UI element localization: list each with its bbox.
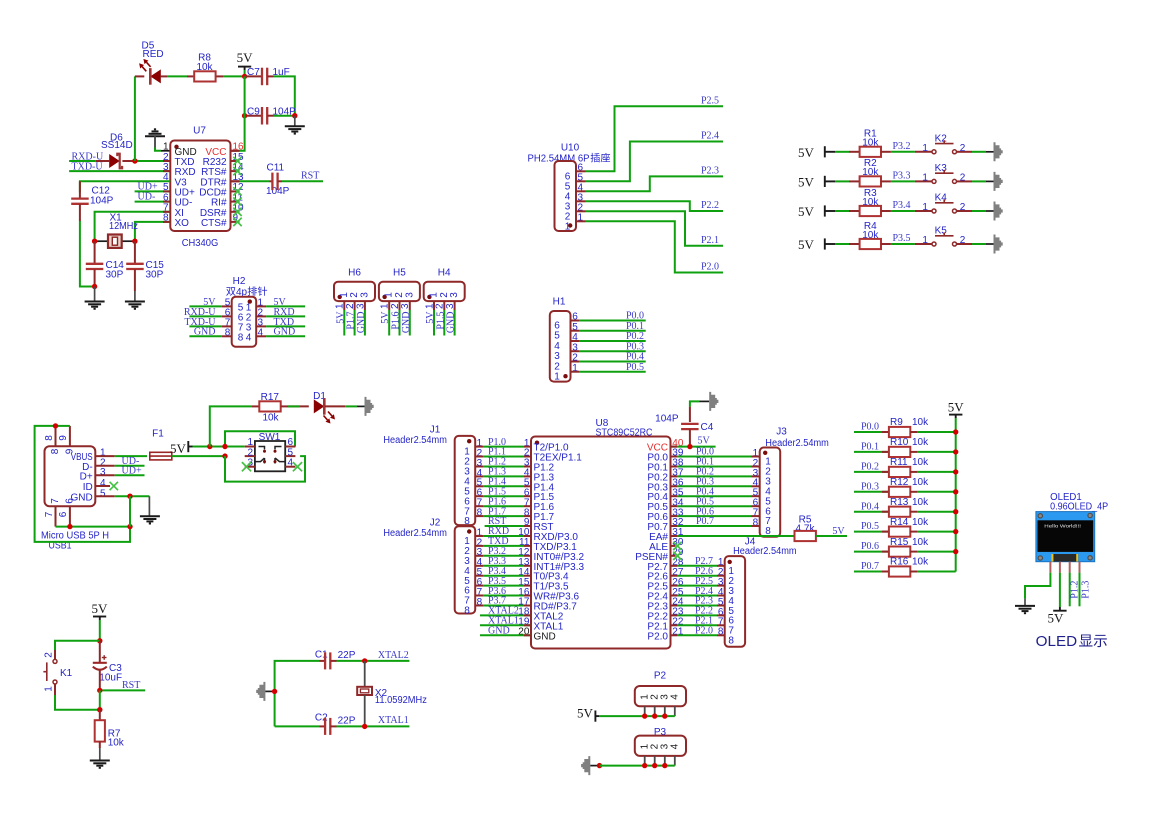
- svg-text:P0.5: P0.5: [861, 521, 879, 532]
- capacitor C3 10uF polarized: [93, 641, 122, 691]
- button K4: [915, 193, 972, 213]
- junction node 5V reset: [97, 638, 102, 643]
- svg-text:4: 4: [670, 743, 681, 749]
- wire R3 to K4: [891, 210, 915, 212]
- button K5: [915, 226, 972, 246]
- svg-text:J1: J1: [430, 425, 441, 436]
- capacitor C11 104P: [266, 163, 290, 198]
- svg-text:P0.4: P0.4: [861, 501, 879, 512]
- wire net P0.4 to R13: [854, 511, 889, 513]
- svg-text:2: 2: [960, 202, 966, 213]
- wire 5V pullup rail: [955, 418, 957, 572]
- svg-text:P0.1: P0.1: [861, 442, 879, 453]
- resistor R4 10k: [849, 221, 891, 249]
- J1 net labels P1.x: [488, 437, 506, 518]
- svg-text:1: 1: [44, 686, 55, 692]
- svg-text:Hello World!!!: Hello World!!!: [1044, 523, 1081, 529]
- junction node shell bottom right: [127, 524, 132, 529]
- wire net XTAL2: [365, 650, 410, 661]
- junction node C9 left: [242, 113, 247, 118]
- wire net P0.1 to R10: [854, 451, 889, 453]
- wire 5V to R3: [835, 210, 849, 212]
- svg-text:0.96OLED_4P: 0.96OLED_4P: [1050, 501, 1108, 513]
- wire gnd rail to C2: [275, 725, 320, 727]
- ground (D1, arrow): [365, 397, 374, 416]
- connector P2: [635, 671, 686, 707]
- junction node C9 right: [292, 113, 297, 118]
- svg-text:P1.3: P1.3: [1081, 581, 1092, 599]
- svg-text:5V: 5V: [798, 175, 815, 190]
- svg-text:1: 1: [565, 221, 571, 232]
- ground (K5 row, arrow): [994, 235, 1003, 254]
- net label P2.0: [701, 262, 719, 273]
- resistor R5 4.7k: [795, 515, 816, 542]
- svg-text:10k: 10k: [912, 497, 929, 508]
- H2 left net labels: [184, 297, 216, 338]
- resistor R12 10k: [889, 477, 929, 497]
- junction node VCC C4: [687, 444, 692, 449]
- svg-text:30P: 30P: [106, 270, 124, 281]
- power 5V (R1 row): [798, 145, 835, 160]
- resistor R9 10k: [889, 417, 929, 437]
- svg-text:P2.0: P2.0: [701, 262, 719, 273]
- power 5V (OLED, inverted): [1048, 607, 1067, 626]
- LED D5: [135, 41, 167, 85]
- svg-text:P2.3: P2.3: [701, 166, 719, 177]
- svg-text:F1: F1: [152, 428, 164, 439]
- wire net TXD-U: [69, 170, 170, 172]
- svg-text:Header2.54mm: Header2.54mm: [383, 435, 447, 446]
- wire net XTAL1: [365, 715, 410, 726]
- wire OLED pin4 P1.3: [1080, 573, 1092, 607]
- svg-text:RST: RST: [122, 680, 140, 691]
- svg-text:TXD-U: TXD-U: [72, 161, 104, 172]
- junction node C14 bottom: [92, 284, 97, 289]
- svg-text:3: 3: [404, 292, 415, 298]
- U8 left pin names: [534, 443, 585, 643]
- svg-text:10k: 10k: [912, 537, 929, 548]
- junction node shell top: [53, 423, 58, 428]
- resistor R13 10k: [889, 497, 929, 517]
- wire 5V to K1: [55, 641, 100, 650]
- wire LED branch vertical: [134, 76, 136, 161]
- caption OLED display: [1036, 634, 1107, 650]
- J4 pin wires to U8: [671, 566, 725, 636]
- svg-text:H5: H5: [393, 268, 406, 279]
- wire SW1 pin5 loop: [225, 456, 305, 482]
- wire C1 right to XTAL2: [337, 660, 365, 662]
- LED D1: [313, 391, 345, 423]
- net label P2.4: [701, 131, 719, 142]
- wire C1 left to gnd rail: [275, 661, 320, 727]
- svg-text:H2: H2: [233, 276, 246, 287]
- wire 5V node to SW1 pins: [210, 431, 295, 446]
- svg-text:5: 5: [100, 488, 106, 499]
- H4 net labels: [425, 311, 457, 333]
- junction node rail R13: [953, 509, 958, 514]
- svg-text:10uF: 10uF: [99, 673, 122, 684]
- svg-text:5V: 5V: [237, 50, 254, 65]
- wire K1 to RST node: [55, 695, 100, 710]
- svg-text:GND: GND: [194, 327, 216, 338]
- svg-text:H1: H1: [553, 297, 566, 308]
- svg-text:XTAL1: XTAL1: [378, 715, 409, 726]
- no-connect X SW1 pin4: [293, 462, 302, 471]
- ground (K2 row, arrow): [994, 142, 1003, 161]
- H2 right net labels: [274, 297, 296, 338]
- svg-text:P3.5: P3.5: [893, 233, 911, 244]
- svg-text:P3.2: P3.2: [893, 141, 911, 152]
- ground (crystal, arrow left): [256, 682, 274, 701]
- wire 5V to P2 pins: [599, 715, 675, 717]
- wire U7 pin8 XO to X1: [135, 222, 170, 241]
- U7 left pin numbers: [163, 142, 169, 224]
- net label P0.4 (pullup): [861, 501, 879, 512]
- svg-text:6: 6: [64, 498, 75, 504]
- no-connect X SW1 pin3: [242, 462, 251, 471]
- wire 5V to R2: [835, 180, 849, 182]
- svg-text:3: 3: [355, 303, 366, 309]
- svg-text:22P: 22P: [338, 650, 356, 661]
- connector H6: [334, 268, 375, 302]
- svg-text:J2: J2: [430, 518, 441, 529]
- svg-text:U7: U7: [193, 126, 206, 137]
- junction node SW1 pin2 loop: [222, 453, 227, 458]
- resistor R10 10k: [889, 437, 929, 457]
- U8 right pin numbers: [672, 438, 684, 638]
- wire U8 VCC pin40 to 5V: [671, 436, 716, 447]
- wire C2 right to XTAL1: [337, 725, 365, 727]
- svg-text:5V: 5V: [798, 145, 815, 160]
- wire net RST (C11 right): [282, 171, 323, 182]
- svg-text:8: 8: [238, 333, 244, 344]
- ground (below R7): [90, 748, 110, 768]
- net label RXD-U: [72, 151, 104, 162]
- connector USB1 Micro USB 5P H: [41, 446, 109, 551]
- wire net P2.1 (U10 pin2): [586, 211, 724, 246]
- svg-text:ID: ID: [83, 482, 93, 493]
- ground (below C14): [85, 287, 105, 309]
- U7 right pin numbers: [233, 142, 245, 224]
- svg-text:2: 2: [960, 143, 966, 154]
- J3 pin wires to U8: [671, 457, 760, 527]
- junction node R7 top: [97, 707, 102, 712]
- H2 right pin stubs and wires: [256, 306, 305, 336]
- capacitor C12 104P: [71, 181, 113, 221]
- ground (C4, arrow): [709, 392, 718, 411]
- svg-text:5V: 5V: [577, 706, 594, 721]
- wire net P2.3 (U10 pin4): [586, 176, 724, 191]
- resistor R17 10k: [252, 392, 288, 424]
- wire R14 to rail: [917, 531, 956, 533]
- connector J4 Header2.54mm: [718, 536, 797, 647]
- USB1 shell pins 7 6 bottom stubs: [44, 506, 70, 526]
- U8 left pin numbers: [518, 438, 530, 638]
- H5 pin stubs and wires: [380, 301, 412, 335]
- wire 5V up to R17: [210, 406, 252, 446]
- svg-text:H6: H6: [348, 268, 361, 279]
- svg-text:RST: RST: [301, 171, 319, 182]
- svg-text:GND: GND: [488, 626, 510, 637]
- svg-text:4: 4: [100, 478, 106, 489]
- junction nodes P3: [642, 763, 668, 768]
- svg-text:10k: 10k: [108, 738, 125, 749]
- crystal X1 12MHz: [95, 213, 138, 248]
- ground (USB): [140, 496, 160, 523]
- net label P0.2 (pullup): [861, 462, 879, 473]
- junction node rail R12: [953, 489, 958, 494]
- power 5V (P2): [577, 706, 599, 722]
- wire USB shell ground loop: [35, 426, 130, 542]
- wire U7 pin7 XI to X1: [95, 212, 171, 241]
- junction node crystal gnd: [272, 689, 277, 694]
- connector J3 Header2.54mm: [753, 427, 829, 538]
- svg-text:P0.7: P0.7: [696, 516, 714, 527]
- resistor R7 10k: [95, 710, 125, 749]
- ground (K3 row, arrow): [994, 172, 1003, 191]
- capacitor C14 30P: [86, 241, 124, 286]
- net label P3.4: [893, 200, 911, 211]
- capacitor C9 104P: [245, 107, 297, 125]
- svg-text:J3: J3: [776, 427, 787, 438]
- wire R12 to rail: [917, 491, 956, 493]
- svg-text:1: 1: [922, 235, 928, 246]
- J4 net labels P2.x: [695, 556, 713, 637]
- capacitor C1 22P: [315, 650, 356, 670]
- junction node P3 gnd: [597, 763, 602, 768]
- svg-text:7: 7: [50, 498, 61, 504]
- power 5V (pullup rail): [948, 400, 965, 419]
- svg-text:C11: C11: [267, 163, 285, 174]
- svg-text:4: 4: [670, 694, 681, 700]
- svg-text:5V: 5V: [170, 441, 187, 456]
- junction node 5V switch: [207, 444, 212, 449]
- wire R17 to D1: [288, 405, 309, 407]
- net label P0.0 (pullup): [861, 422, 879, 433]
- svg-text:10k: 10k: [912, 517, 929, 528]
- wire net P2.5 (U10 pin6): [586, 106, 724, 171]
- wire U8 EA# pin31 to R5: [671, 535, 795, 537]
- svg-text:3: 3: [445, 303, 456, 309]
- no-connect X U8 ALE pin30: [671, 542, 682, 550]
- svg-text:10k: 10k: [912, 557, 929, 568]
- wire net GND (U8 pin20): [480, 626, 531, 637]
- P3 pin stubs: [645, 756, 675, 766]
- U7 right pin stubs: [231, 151, 240, 222]
- net label P0.6 (pullup): [861, 541, 879, 552]
- wire 5V rail to U7 VCC pin16: [231, 76, 245, 150]
- wire C7 to gnd corner: [274, 76, 295, 115]
- wire OLED pin2 5V: [1059, 573, 1061, 607]
- svg-text:3: 3: [449, 292, 460, 298]
- wire U7 pin4 V3 to C12: [80, 181, 170, 192]
- junction node rail R14: [953, 529, 958, 534]
- OLED pin stubs: [1050, 562, 1079, 573]
- button K2: [915, 134, 972, 154]
- svg-text:1: 1: [922, 202, 928, 213]
- svg-text:1: 1: [554, 372, 560, 383]
- wire net P0.7 to R16: [854, 571, 889, 573]
- wire net P0.0 to R9: [854, 431, 889, 433]
- svg-text:P0.0: P0.0: [861, 422, 879, 433]
- wire R9 to rail: [917, 431, 956, 433]
- wire U7 pin13 DTR# to C11: [231, 180, 270, 182]
- wire net P2.4 (U10 pin5): [586, 142, 724, 182]
- svg-text:9: 9: [64, 448, 75, 454]
- svg-text:12MHz: 12MHz: [109, 221, 138, 232]
- svg-text:22P: 22P: [338, 716, 356, 727]
- svg-text:C4: C4: [701, 422, 714, 433]
- svg-text:GND: GND: [534, 631, 556, 642]
- svg-text:3: 3: [400, 303, 411, 309]
- wire C12 down to gnd row: [80, 221, 95, 287]
- svg-text:5V: 5V: [948, 400, 965, 415]
- svg-text:P3.4: P3.4: [893, 200, 911, 211]
- capacitor C15 30P: [126, 241, 164, 291]
- svg-text:8: 8: [50, 448, 61, 454]
- junction node shell bottom left: [67, 524, 72, 529]
- junction node XTAL1: [362, 724, 367, 729]
- svg-text:8: 8: [44, 435, 55, 441]
- wire USB D- UD-: [95, 456, 144, 467]
- junction node RST: [97, 688, 102, 693]
- svg-text:H4: H4: [438, 268, 451, 279]
- connector J2 Header2.54mm: [383, 518, 482, 617]
- svg-text:5V: 5V: [798, 237, 815, 252]
- wire USB GND down: [129, 496, 131, 526]
- wire U7 pin5 UD+: [135, 182, 171, 193]
- wire 5V to R1: [835, 151, 849, 153]
- resistor R16 10k: [889, 557, 929, 577]
- wire net P0.6 to R15: [854, 551, 889, 553]
- svg-text:11.0592MHz: 11.0592MHz: [375, 695, 427, 706]
- wire OLED pin1 GND: [1025, 573, 1050, 599]
- svg-text:OLED: OLED: [1036, 634, 1078, 650]
- svg-text:P0.3: P0.3: [861, 481, 879, 492]
- resistor R3 10k: [849, 188, 891, 216]
- wire U7 pin6 UD-: [135, 191, 171, 202]
- ground (U7 pin1, inverted): [145, 129, 170, 151]
- svg-text:XTAL2: XTAL2: [378, 650, 409, 661]
- ground (K4 row, arrow): [994, 202, 1003, 221]
- wire net RST (reset): [100, 680, 145, 691]
- net label P3.2: [893, 141, 911, 152]
- capacitor C7 1uF: [245, 67, 290, 85]
- wire F1 to SW1 row: [172, 455, 225, 457]
- wire K3 to ground: [972, 180, 994, 182]
- junction nodes P2: [642, 713, 668, 718]
- junction node RXD-U/D5: [132, 158, 137, 163]
- svg-text:P2.4: P2.4: [701, 131, 719, 142]
- J2 net labels: [488, 526, 509, 607]
- svg-text:7: 7: [44, 511, 55, 517]
- junction node rail R15: [953, 549, 958, 554]
- svg-text:2: 2: [960, 173, 966, 184]
- svg-text:UD-: UD-: [138, 191, 156, 202]
- wire net P2.2 (U10 pin3): [586, 201, 724, 211]
- svg-text:2: 2: [960, 235, 966, 246]
- wire D5 to R8: [167, 75, 187, 77]
- junction node 5V/C7: [242, 74, 247, 79]
- svg-text:P3.3: P3.3: [893, 170, 911, 181]
- crystal X2 11.0592MHz: [357, 661, 427, 727]
- op-amp U7 CH340G chip body: [170, 126, 230, 249]
- junction node X1 right: [132, 239, 137, 244]
- svg-text:1: 1: [922, 143, 928, 154]
- wire C4 to ground arrow: [690, 401, 709, 406]
- junction node XTAL2: [362, 658, 367, 663]
- H4 pin stubs and wires: [424, 301, 456, 335]
- svg-text:UD+: UD+: [122, 466, 142, 477]
- wire gnd to P3 pins: [600, 765, 675, 767]
- H1 net labels P0.x: [626, 311, 644, 373]
- wire K2 to ground: [972, 151, 994, 153]
- wire R8 to 5V node: [223, 75, 245, 77]
- svg-text:GND: GND: [446, 312, 457, 334]
- svg-text:P2: P2: [654, 671, 667, 682]
- wire K5 to ground: [972, 243, 994, 245]
- svg-text:P0.2: P0.2: [861, 462, 879, 473]
- fuse F1: [150, 428, 172, 460]
- svg-text:5V: 5V: [698, 436, 711, 447]
- net label P2.5: [701, 95, 719, 106]
- resistor R14 10k: [889, 517, 929, 537]
- wire OLED pin3 P1.2: [1070, 573, 1081, 607]
- svg-text:K1: K1: [60, 668, 73, 679]
- wire net P0.3 to R12: [854, 491, 889, 493]
- svg-text:1: 1: [922, 173, 928, 184]
- wire R13 to rail: [917, 511, 956, 513]
- svg-text:5V: 5V: [92, 601, 109, 616]
- svg-text:P2.0: P2.0: [647, 631, 668, 642]
- wire net RXD-U: [69, 160, 96, 162]
- H6 net labels: [335, 311, 367, 333]
- wire USB D+ UD+: [95, 466, 144, 477]
- wire R4 to K5: [891, 243, 915, 245]
- junction node USB GND: [127, 494, 132, 499]
- resistor R15 10k: [889, 537, 929, 557]
- wire R1 to K2: [891, 151, 915, 153]
- wire R11 to rail: [917, 471, 956, 473]
- power 5V (reset): [92, 601, 109, 641]
- svg-text:8: 8: [728, 636, 734, 647]
- svg-text:P2.1: P2.1: [701, 235, 719, 246]
- net label P0.3 (pullup): [861, 481, 879, 492]
- svg-text:10k: 10k: [912, 457, 929, 468]
- power 5V (top): [237, 50, 254, 76]
- connector P3: [635, 727, 686, 756]
- switch SW1: [245, 432, 296, 471]
- H6 pin stubs and wires: [335, 301, 367, 335]
- svg-text:2: 2: [44, 652, 55, 658]
- svg-text:9: 9: [58, 435, 69, 441]
- USB ID pin no-connect: [95, 482, 118, 490]
- no-connect X U8 PSEN# pin29: [671, 552, 682, 560]
- svg-text:CH340G: CH340G: [182, 237, 219, 249]
- capacitor C2 22P: [315, 713, 356, 735]
- svg-text:104P: 104P: [90, 196, 114, 207]
- junction node X1 left: [92, 239, 97, 244]
- ground (below C9): [285, 116, 305, 134]
- net label P0.7 (pullup): [861, 561, 879, 572]
- wire net RST (U8 pin9): [485, 516, 531, 527]
- U10 pin stubs: [576, 171, 586, 221]
- svg-text:104P: 104P: [655, 414, 679, 425]
- net label P0.5 (pullup): [861, 521, 879, 532]
- net label TXD-U: [72, 161, 104, 172]
- svg-text:3: 3: [359, 292, 370, 298]
- wire net P0.2 to R11: [854, 471, 889, 473]
